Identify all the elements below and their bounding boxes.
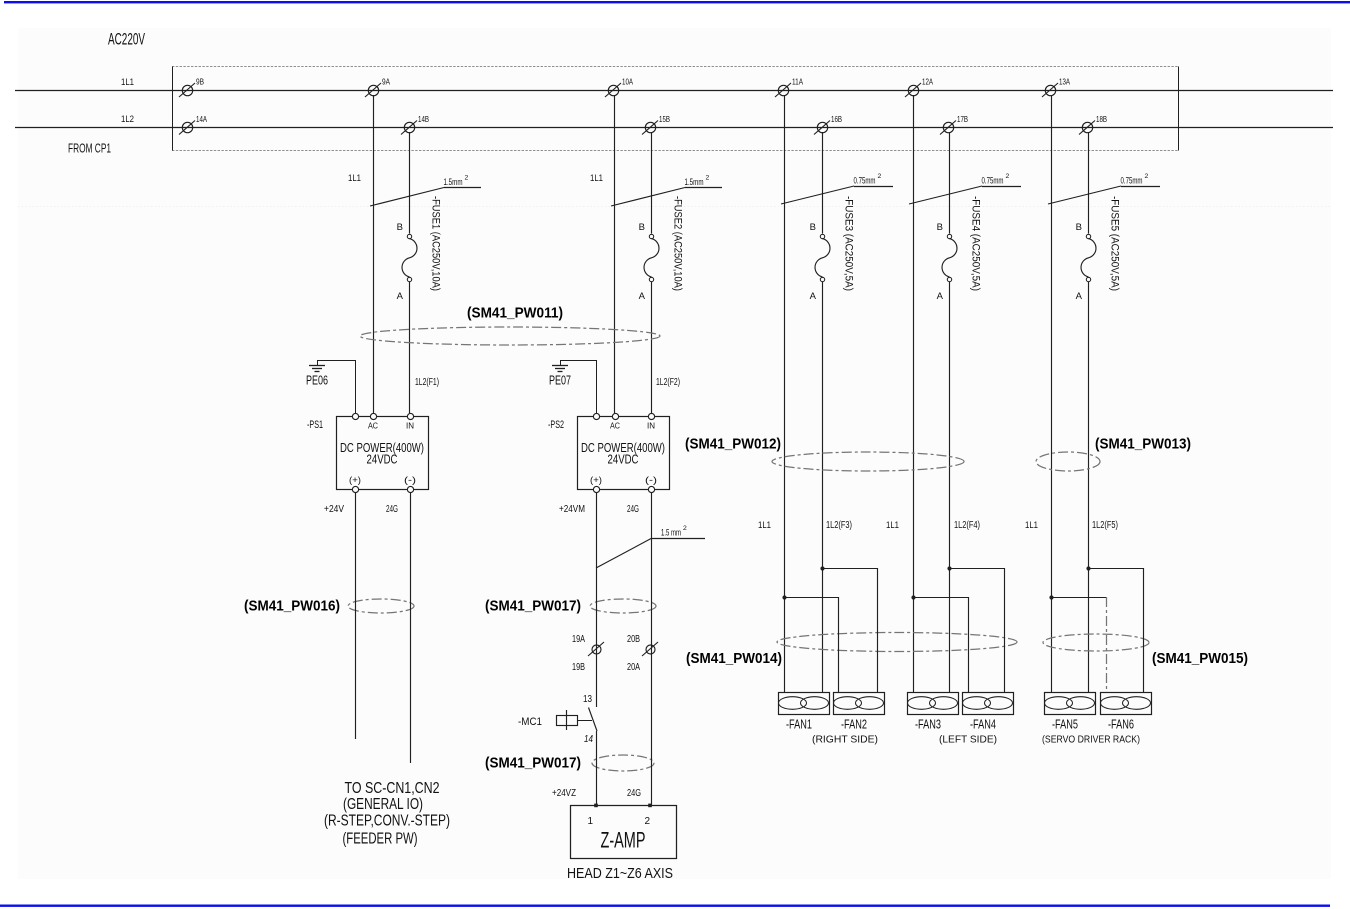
svg-text:-FUSE5 (AC250V,5A): -FUSE5 (AC250V,5A): [1109, 196, 1121, 291]
svg-text:B: B: [639, 222, 645, 233]
svg-text:10A: 10A: [622, 77, 633, 87]
svg-text:PE07: PE07: [549, 374, 571, 388]
svg-text:14B: 14B: [418, 114, 429, 124]
svg-text:-FUSE3 (AC250V,5A): -FUSE3 (AC250V,5A): [843, 196, 855, 291]
svg-text:(+): (+): [590, 475, 602, 485]
svg-text:2: 2: [1006, 173, 1010, 180]
svg-text:18B: 18B: [1096, 114, 1107, 124]
svg-text:1L2(F2): 1L2(F2): [656, 377, 680, 388]
svg-text:20B: 20B: [627, 634, 640, 645]
svg-text:12A: 12A: [922, 77, 933, 87]
svg-text:14A: 14A: [196, 114, 207, 124]
svg-text:-FAN5: -FAN5: [1052, 717, 1078, 732]
svg-text:1: 1: [587, 816, 593, 827]
svg-text:14: 14: [584, 734, 593, 745]
svg-text:(GENERAL IO): (GENERAL IO): [343, 796, 423, 813]
svg-text:-FAN4: -FAN4: [970, 717, 996, 732]
svg-text:(-): (-): [645, 475, 657, 485]
svg-text:(SM41_PW013): (SM41_PW013): [1095, 436, 1191, 453]
svg-text:-FUSE1 (AC250V,10A): -FUSE1 (AC250V,10A): [430, 196, 442, 291]
svg-text:1.5 mm: 1.5 mm: [661, 528, 681, 539]
svg-text:(SM41_PW017): (SM41_PW017): [485, 598, 581, 615]
svg-text:24G: 24G: [627, 788, 641, 799]
svg-text:AC: AC: [610, 421, 620, 431]
svg-text:13: 13: [583, 694, 592, 705]
svg-text:IN: IN: [647, 421, 655, 431]
svg-text:9A: 9A: [382, 77, 390, 87]
svg-text:2: 2: [644, 816, 650, 827]
svg-text:2: 2: [706, 175, 710, 182]
svg-text:AC: AC: [368, 421, 378, 431]
svg-text:-FUSE4 (AC250V,5A): -FUSE4 (AC250V,5A): [970, 196, 982, 291]
svg-text:1L1: 1L1: [348, 173, 361, 183]
svg-text:1L2: 1L2: [121, 114, 134, 124]
svg-text:16B: 16B: [831, 114, 842, 124]
svg-text:+24VZ: +24VZ: [552, 788, 576, 799]
svg-text:24VDC: 24VDC: [608, 453, 639, 467]
svg-text:2: 2: [683, 525, 687, 532]
svg-text:-FAN3: -FAN3: [915, 717, 941, 732]
svg-text:TO SC-CN1,CN2: TO SC-CN1,CN2: [345, 780, 440, 797]
svg-text:1L2(F5): 1L2(F5): [1092, 520, 1118, 531]
svg-text:15B: 15B: [659, 114, 670, 124]
svg-text:-FAN6: -FAN6: [1108, 717, 1134, 732]
svg-text:1L1: 1L1: [758, 520, 771, 530]
svg-text:11A: 11A: [792, 77, 803, 87]
svg-text:B: B: [397, 222, 403, 233]
svg-text:19A: 19A: [572, 634, 585, 645]
svg-text:1L2(F4): 1L2(F4): [954, 520, 980, 531]
svg-text:B: B: [810, 222, 816, 233]
svg-text:9B: 9B: [196, 77, 204, 87]
svg-text:PE06: PE06: [306, 374, 328, 388]
svg-text:(RIGHT SIDE): (RIGHT SIDE): [812, 734, 878, 746]
svg-text:24G: 24G: [386, 504, 398, 515]
svg-text:A: A: [937, 291, 944, 302]
svg-text:(SM41_PW015): (SM41_PW015): [1152, 650, 1248, 667]
svg-text:1L1: 1L1: [590, 173, 603, 183]
svg-text:(+): (+): [349, 475, 361, 485]
svg-text:-PS1: -PS1: [307, 419, 323, 431]
svg-text:0.75mm: 0.75mm: [982, 176, 1004, 187]
svg-text:A: A: [810, 291, 817, 302]
svg-text:2: 2: [465, 175, 469, 182]
svg-text:AC220V: AC220V: [108, 31, 145, 49]
svg-text:(SERVO DRIVER RACK): (SERVO DRIVER RACK): [1042, 734, 1140, 746]
svg-text:1.5mm: 1.5mm: [444, 177, 463, 188]
svg-text:17B: 17B: [957, 114, 968, 124]
svg-text:1L2(F3): 1L2(F3): [826, 520, 852, 531]
svg-text:A: A: [397, 291, 404, 302]
svg-text:-FAN2: -FAN2: [841, 717, 867, 732]
svg-text:HEAD Z1~Z6 AXIS: HEAD Z1~Z6 AXIS: [567, 865, 673, 882]
svg-text:(R-STEP,CONV.-STEP): (R-STEP,CONV.-STEP): [324, 813, 450, 830]
svg-text:2: 2: [878, 173, 882, 180]
svg-text:IN: IN: [406, 421, 414, 431]
svg-text:(SM41_PW012): (SM41_PW012): [685, 436, 781, 453]
svg-text:-FUSE2 (AC250V,10A): -FUSE2 (AC250V,10A): [672, 196, 684, 291]
svg-text:(FEEDER PW): (FEEDER PW): [343, 831, 418, 848]
svg-text:A: A: [1076, 291, 1083, 302]
svg-text:(SM41_PW014): (SM41_PW014): [686, 650, 782, 667]
svg-text:24VDC: 24VDC: [367, 453, 398, 467]
svg-text:24G: 24G: [627, 504, 639, 515]
svg-text:0.75mm: 0.75mm: [854, 176, 876, 187]
svg-text:-PS2: -PS2: [548, 419, 564, 431]
svg-text:Z-AMP: Z-AMP: [601, 828, 646, 853]
svg-text:+24VM: +24VM: [559, 504, 585, 515]
svg-text:+24V: +24V: [324, 504, 344, 515]
svg-text:2: 2: [1145, 173, 1149, 180]
svg-text:13A: 13A: [1059, 77, 1070, 87]
svg-text:FROM CP1: FROM CP1: [68, 142, 111, 156]
svg-text:20A: 20A: [627, 662, 640, 673]
svg-text:-FAN1: -FAN1: [786, 717, 812, 732]
svg-text:(SM41_PW017): (SM41_PW017): [485, 755, 581, 772]
svg-text:A: A: [639, 291, 646, 302]
svg-text:(LEFT SIDE): (LEFT SIDE): [939, 734, 997, 746]
svg-text:(SM41_PW016): (SM41_PW016): [244, 598, 340, 615]
svg-text:1L1: 1L1: [886, 520, 899, 530]
svg-text:-MC1: -MC1: [518, 716, 542, 728]
svg-text:19B: 19B: [572, 662, 585, 673]
svg-text:0.75mm: 0.75mm: [1121, 176, 1143, 187]
svg-text:1L1: 1L1: [121, 77, 134, 87]
svg-text:1.5mm: 1.5mm: [685, 177, 704, 188]
svg-text:1L1: 1L1: [1025, 520, 1038, 530]
svg-text:1L2(F1): 1L2(F1): [415, 377, 439, 388]
svg-text:B: B: [937, 222, 943, 233]
svg-text:B: B: [1076, 222, 1082, 233]
svg-text:(-): (-): [404, 475, 416, 485]
svg-text:(SM41_PW011): (SM41_PW011): [467, 305, 563, 322]
